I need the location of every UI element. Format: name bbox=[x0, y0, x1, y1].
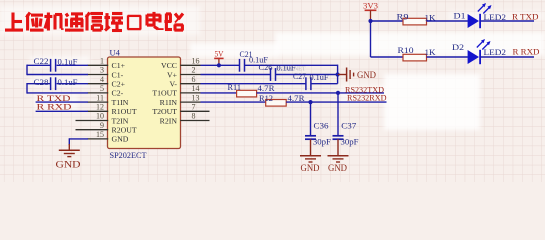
svg-text:C1-: C1- bbox=[112, 70, 124, 79]
capacitor C28 0.1uF bbox=[50, 77, 52, 90]
svg-text:4.7R: 4.7R bbox=[288, 93, 305, 103]
svg-text:R10: R10 bbox=[398, 45, 414, 55]
svg-text:V-: V- bbox=[169, 80, 177, 89]
capacitor C37 30pF bbox=[333, 135, 344, 137]
svg-text:30pF: 30pF bbox=[341, 136, 359, 146]
svg-text:13: 13 bbox=[192, 93, 200, 102]
svg-text:LED2: LED2 bbox=[484, 47, 507, 57]
pin 4 C2+ bbox=[88, 83, 109, 85]
wire R10 to D2 bbox=[427, 56, 468, 58]
wire R9 to D1 bbox=[427, 20, 468, 22]
LED D2 bbox=[468, 50, 479, 64]
svg-text:C22: C22 bbox=[34, 56, 49, 66]
capacitor C22 0.1uF bbox=[50, 59, 52, 72]
pin 2 V+ bbox=[180, 74, 200, 76]
ground symbol right bbox=[338, 74, 346, 76]
svg-text:R1OUT: R1OUT bbox=[112, 107, 137, 116]
svg-text:R2OUT: R2OUT bbox=[112, 126, 137, 135]
svg-text:D1: D1 bbox=[454, 10, 466, 20]
svg-text:T2IN: T2IN bbox=[112, 116, 129, 125]
wire pin16 VCC row bbox=[201, 64, 240, 66]
pin 1 C1+ bbox=[88, 64, 109, 66]
wire pin1 to C22 bbox=[27, 64, 51, 66]
svg-text:0.1uF: 0.1uF bbox=[310, 72, 329, 82]
svg-text:GND: GND bbox=[357, 70, 376, 80]
wire corner down to V- row bbox=[337, 65, 339, 84]
svg-text:GND: GND bbox=[56, 161, 81, 171]
svg-text:2: 2 bbox=[192, 66, 196, 75]
capacitor C21 0.1uF bbox=[239, 59, 241, 72]
wire pin14 to R11 bbox=[201, 92, 237, 94]
pin 6 V- bbox=[180, 83, 200, 85]
svg-text:D2: D2 bbox=[452, 42, 464, 52]
wire junction down to C36 bbox=[310, 102, 312, 136]
svg-text:R RXD: R RXD bbox=[37, 101, 72, 111]
svg-text:SP202ECT: SP202ECT bbox=[110, 150, 148, 160]
svg-text:1K: 1K bbox=[425, 47, 437, 57]
ground symbol under C36 bbox=[300, 155, 321, 157]
svg-text:T2OUT: T2OUT bbox=[152, 107, 177, 116]
svg-text:14: 14 bbox=[192, 84, 200, 93]
svg-text:1: 1 bbox=[100, 57, 104, 66]
svg-text:C28: C28 bbox=[34, 77, 49, 87]
capacitor C27 0.1uF bbox=[305, 77, 307, 90]
junction TXD/C37 bbox=[336, 91, 340, 95]
pin 7 T2OUT bbox=[180, 110, 209, 112]
wire net R_TXD to pin 11 bbox=[36, 101, 88, 103]
pin 9 R2OUT bbox=[76, 129, 109, 131]
pin 14 T1OUT bbox=[180, 92, 200, 94]
resistor R9 1K bbox=[403, 18, 427, 25]
ground stem C36 bbox=[310, 139, 312, 155]
svg-text:12: 12 bbox=[96, 103, 104, 112]
wire vertical pin1-pin3 loop bbox=[26, 65, 28, 76]
wire to pin 5 bbox=[27, 92, 88, 94]
svg-text:6: 6 bbox=[192, 75, 196, 84]
junction V+/GND bbox=[336, 72, 340, 76]
svg-text:T1OUT: T1OUT bbox=[152, 89, 177, 98]
pin 5 C2- bbox=[88, 92, 109, 94]
wire R12 to net RS232RXD bbox=[286, 101, 386, 103]
svg-text:5V: 5V bbox=[215, 48, 225, 58]
pin 3 C1- bbox=[88, 74, 109, 76]
wire C27 to corner bbox=[311, 83, 337, 85]
svg-text:U4: U4 bbox=[110, 48, 121, 58]
wire C28 to pin4 stub bbox=[57, 83, 88, 85]
pin 11 T1IN bbox=[88, 101, 109, 103]
pin 16 VCC bbox=[180, 64, 200, 66]
wire C22 to pin1 stub bbox=[57, 64, 88, 66]
wire 3V3 to R9 bbox=[371, 20, 404, 22]
LED D1 bbox=[468, 14, 479, 28]
title 上位机通信接口电路 bbox=[11, 13, 14, 31]
svg-text:V+: V+ bbox=[167, 70, 178, 79]
wire net R_RXD to pin 12 bbox=[36, 110, 88, 112]
svg-text:C2+: C2+ bbox=[112, 80, 126, 89]
pin 10 T2IN bbox=[76, 120, 109, 122]
svg-text:R RXD: R RXD bbox=[513, 46, 540, 56]
svg-text:GND: GND bbox=[301, 164, 320, 174]
svg-text:C2-: C2- bbox=[112, 89, 124, 98]
svg-text:GND: GND bbox=[112, 135, 129, 144]
pin 12 R1OUT bbox=[88, 110, 109, 112]
svg-text:VCC: VCC bbox=[161, 61, 177, 70]
svg-text:C37: C37 bbox=[341, 120, 356, 130]
svg-text:R12: R12 bbox=[259, 93, 273, 103]
svg-text:C27: C27 bbox=[293, 71, 306, 81]
svg-text:8: 8 bbox=[192, 112, 196, 121]
wire C26 to ground junction bbox=[276, 74, 338, 76]
wire to pin 3 bbox=[27, 74, 88, 76]
pin 15 GND bbox=[88, 138, 109, 140]
svg-text:3: 3 bbox=[100, 66, 104, 75]
wire pin15 to ground bbox=[69, 138, 88, 140]
svg-text:0.1uF: 0.1uF bbox=[58, 77, 78, 87]
svg-text:R11: R11 bbox=[228, 82, 242, 92]
wire R11 to net RS232TXD bbox=[257, 92, 384, 94]
svg-text:R9: R9 bbox=[397, 11, 409, 21]
svg-text:C26: C26 bbox=[259, 62, 273, 72]
power port 5V bbox=[218, 59, 220, 65]
wire pin13 to R12 bbox=[201, 101, 266, 103]
svg-text:0.1uF: 0.1uF bbox=[58, 56, 78, 66]
junction 3V3 bbox=[368, 19, 372, 23]
junction 5V/VCC bbox=[217, 63, 221, 67]
wire pin4 to C28 bbox=[27, 83, 51, 85]
wire vertical 3V3 to R10 row bbox=[370, 21, 372, 57]
svg-text:30pF: 30pF bbox=[313, 136, 331, 146]
capacitor C36 30pF bbox=[305, 135, 316, 137]
junction RXD/C36 bbox=[308, 100, 312, 104]
ground stem C37 bbox=[337, 139, 339, 155]
svg-text:4.7R: 4.7R bbox=[258, 83, 275, 93]
resistor R12 4.7R bbox=[266, 100, 287, 107]
ground symbol left bbox=[68, 144, 70, 150]
wire D1 to net R_TXD bbox=[480, 20, 534, 22]
capacitor C26 0.1uF bbox=[270, 68, 272, 81]
svg-text:7: 7 bbox=[192, 103, 196, 112]
wire D2 to net R_RXD bbox=[480, 56, 534, 58]
pin 8 R2IN bbox=[180, 120, 209, 122]
ground symbol under C37 bbox=[328, 155, 349, 157]
wire pin6 V- row bbox=[201, 83, 306, 85]
svg-text:T1IN: T1IN bbox=[112, 98, 129, 107]
LED D2 arrows bbox=[477, 40, 484, 47]
svg-text:3V3: 3V3 bbox=[363, 1, 378, 11]
svg-text:10: 10 bbox=[96, 112, 104, 121]
svg-text:C36: C36 bbox=[314, 120, 329, 130]
wire pin2 V+ row bbox=[201, 74, 271, 76]
svg-text:16: 16 bbox=[192, 57, 200, 66]
washed background patches bbox=[0, 6, 545, 130]
svg-text:C1+: C1+ bbox=[112, 61, 126, 70]
svg-text:GND: GND bbox=[328, 164, 347, 174]
svg-text:RS232RXD: RS232RXD bbox=[347, 92, 387, 102]
wire vertical pin4-pin5 loop bbox=[26, 83, 28, 94]
svg-text:11: 11 bbox=[96, 93, 104, 102]
op-amp U1 chip body U4 SP202ECT bbox=[108, 57, 181, 149]
svg-text:R2IN: R2IN bbox=[160, 116, 178, 125]
svg-text:R1IN: R1IN bbox=[160, 98, 178, 107]
svg-text:9: 9 bbox=[100, 121, 104, 130]
wire C21 to corner bbox=[245, 64, 338, 66]
svg-text:15: 15 bbox=[96, 130, 104, 139]
svg-text:R TXD: R TXD bbox=[512, 12, 539, 22]
wire to R10 bbox=[371, 56, 404, 58]
LED D1 arrows bbox=[478, 4, 485, 11]
wire junction down to C37 bbox=[337, 93, 339, 136]
svg-text:5: 5 bbox=[100, 84, 104, 93]
pin 13 R1IN bbox=[180, 101, 200, 103]
svg-text:4: 4 bbox=[100, 75, 104, 84]
resistor R10 1K bbox=[403, 54, 427, 61]
resistor R11 4.7R bbox=[237, 90, 257, 97]
